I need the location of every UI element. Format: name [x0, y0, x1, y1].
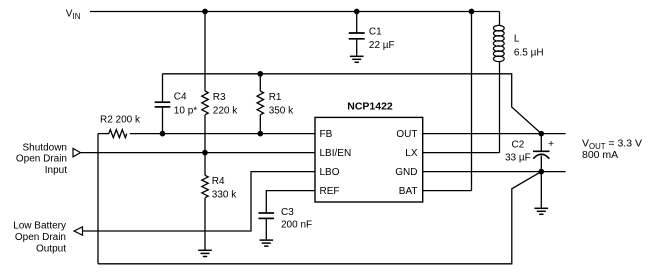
wire feedback top line: [163, 74, 542, 134]
svg-text:10 p*: 10 p*: [174, 106, 197, 117]
wire inductor to LX: [499, 62, 501, 153]
junction FB-R1: [258, 131, 262, 135]
wire R1 bottom to FB line: [259, 115, 261, 134]
wire BAT stub: [423, 190, 472, 192]
svg-text:330 k: 330 k: [212, 190, 237, 201]
svg-text:22 µF: 22 µF: [369, 40, 395, 51]
svg-text:R2 200 k: R2 200 k: [100, 115, 141, 126]
ground output: [535, 208, 549, 214]
wire GND line: [423, 171, 566, 173]
capacitor C3: [259, 213, 275, 218]
junction VOUT node: [539, 131, 543, 135]
junction LBI-R3-R4: [203, 150, 207, 154]
svg-text:R3: R3: [213, 92, 226, 103]
wire bottom ground rail: [98, 172, 541, 264]
svg-text:LBO: LBO: [320, 167, 340, 178]
svg-text:C1: C1: [369, 27, 382, 38]
ground C1: [350, 56, 364, 62]
wire R3 bottom to LBI/EN line: [204, 115, 206, 153]
svg-text:350 k: 350 k: [269, 106, 294, 117]
wire C2 bottom: [540, 156, 542, 172]
inductor L: [493, 25, 504, 61]
junction VIN-BAT: [469, 9, 473, 13]
ground C3: [260, 240, 274, 246]
wire R4 top: [204, 153, 206, 176]
wire VIN rail corner to inductor: [499, 12, 501, 26]
svg-text:L: L: [514, 34, 520, 45]
svg-text:Input: Input: [45, 165, 67, 176]
capacitor C2: [533, 151, 550, 159]
wire VIN rail: [90, 11, 500, 13]
capacitor C1: [349, 33, 365, 39]
resistor R2: [109, 130, 127, 138]
svg-text:C2: C2: [512, 139, 525, 150]
svg-text:R4: R4: [212, 176, 225, 187]
wire OUT line: [423, 133, 566, 135]
wire R2 to FB pin: [130, 133, 315, 135]
svg-text:GND: GND: [395, 167, 417, 178]
capacitor C4: [155, 102, 171, 107]
svg-text:LX: LX: [405, 148, 418, 159]
junction GND node: [539, 169, 543, 173]
svg-text:Open Drain: Open Drain: [15, 232, 66, 243]
svg-text:800 mA: 800 mA: [582, 149, 618, 161]
terminal low battery output triangle: [74, 227, 83, 235]
junction VIN-C1: [355, 9, 359, 13]
wire LX stub: [423, 152, 500, 154]
wire BAT drop from VIN rail: [471, 12, 473, 191]
svg-text:REF: REF: [320, 186, 340, 197]
wire C1 to ground: [356, 39, 358, 57]
svg-text:Shutdown: Shutdown: [23, 142, 67, 153]
svg-text:C3: C3: [281, 207, 294, 218]
IC U1 NCP1422 box: [315, 117, 423, 202]
wire C3 to ground: [265, 218, 267, 240]
wire REF line: [266, 191, 315, 213]
wire C2 node to ground: [540, 172, 542, 209]
wire C2 top: [540, 134, 542, 152]
wire R3 drop from VIN rail: [204, 12, 206, 92]
junction FB-C4: [160, 131, 164, 135]
svg-text:6.5 µH: 6.5 µH: [514, 48, 544, 59]
svg-text:R1: R1: [269, 92, 282, 103]
wire shutdown to LBI/EN: [81, 152, 316, 154]
wire C4 bottom to FB line: [162, 107, 164, 134]
svg-text:Open Drain: Open Drain: [16, 154, 67, 165]
svg-text:+: +: [548, 138, 554, 150]
wire R4 to ground: [204, 198, 206, 250]
wire R1 top drop: [259, 74, 261, 91]
terminal shutdown input triangle: [73, 148, 81, 156]
wire R2 ground drop: [97, 134, 99, 264]
svg-text:33 µF: 33 µF: [505, 152, 531, 163]
svg-text:OUT: OUT: [396, 129, 417, 140]
resistor R1: [257, 91, 263, 115]
junction VIN-R3: [203, 9, 207, 13]
junction feedback-R1 top: [258, 72, 262, 76]
svg-text:Low Battery: Low Battery: [13, 221, 66, 232]
svg-text:BAT: BAT: [399, 186, 418, 197]
wire C1 drop from VIN rail: [356, 12, 358, 34]
svg-text:C4: C4: [174, 92, 187, 103]
svg-text:200 nF: 200 nF: [281, 219, 312, 230]
wire C4 top drop: [162, 74, 164, 102]
wire low battery line: [83, 172, 316, 231]
svg-text:LBI/EN: LBI/EN: [320, 148, 352, 159]
resistor R4: [202, 175, 208, 197]
svg-text:Output: Output: [36, 243, 66, 254]
ground R4: [198, 250, 212, 256]
resistor R3: [202, 91, 208, 115]
wire FB line left corner: [98, 133, 109, 135]
svg-text:NCP1422: NCP1422: [347, 101, 393, 113]
svg-text:220 k: 220 k: [213, 106, 238, 117]
svg-text:FB: FB: [320, 129, 333, 140]
